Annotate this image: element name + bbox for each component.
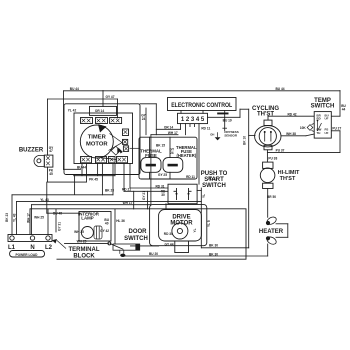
svg-text:POWER LOAD: POWER LOAD: [16, 253, 39, 257]
svg-text:TH: TH: [317, 131, 321, 135]
svg-text:RD 11: RD 11: [201, 127, 210, 131]
svg-text:PU 37: PU 37: [276, 149, 285, 153]
svg-text:WH 25: WH 25: [74, 230, 84, 234]
svg-text:BK 30: BK 30: [209, 253, 218, 257]
svg-text:30: 30: [161, 193, 165, 197]
svg-text:WH 38: WH 38: [286, 132, 296, 136]
svg-text:SENSOR: SENSOR: [224, 133, 238, 137]
svg-text:24: 24: [142, 117, 146, 121]
svg-text:HL 36: HL 36: [116, 219, 125, 223]
svg-text:MOTOR: MOTOR: [170, 221, 193, 227]
svg-text:L2: L2: [45, 245, 53, 251]
svg-text:SWITCH: SWITCH: [311, 104, 335, 110]
svg-text:BK 10: BK 10: [243, 136, 247, 145]
svg-text:ELECTRONIC CONTROL: ELECTRONIC CONTROL: [171, 102, 232, 109]
svg-text:BLOCK: BLOCK: [73, 254, 95, 260]
svg-text:GY 31: GY 31: [58, 222, 62, 231]
svg-text:TH'ST: TH'ST: [280, 176, 296, 182]
svg-text:YL 43: YL 43: [13, 213, 17, 222]
svg-text:BK 30: BK 30: [209, 244, 218, 248]
svg-text:RD: RD: [317, 117, 321, 121]
svg-text:UF: UF: [325, 117, 329, 121]
svg-text:RD 30: RD 30: [164, 232, 173, 236]
svg-text:PU 38: PU 38: [268, 157, 277, 161]
svg-text:WH 17: WH 17: [123, 201, 133, 205]
svg-text:BU 20: BU 20: [149, 252, 158, 256]
svg-text:BK 15: BK 15: [156, 143, 165, 147]
svg-text:GY 44: GY 44: [165, 243, 174, 247]
svg-text:BU 44: BU 44: [275, 87, 284, 91]
svg-text:LAMP: LAMP: [81, 215, 94, 220]
svg-text:FUSE: FUSE: [145, 153, 157, 158]
svg-text:BU 19: BU 19: [223, 119, 232, 123]
svg-text:RD 31: RD 31: [155, 184, 164, 188]
svg-text:BU 44: BU 44: [70, 87, 79, 91]
svg-text:BK 23: BK 23: [105, 189, 114, 193]
svg-text:10K: 10K: [300, 126, 307, 130]
svg-text:PU 27: PU 27: [332, 127, 341, 131]
svg-text:1 2 3 4 5: 1 2 3 4 5: [181, 117, 205, 123]
svg-text:YL 43: YL 43: [40, 198, 49, 202]
svg-text:47: 47: [49, 149, 53, 153]
svg-text:WH 17: WH 17: [27, 213, 31, 223]
svg-text:RD 11: RD 11: [208, 177, 217, 181]
svg-text:GY 21: GY 21: [142, 191, 146, 200]
svg-text:SWITCH: SWITCH: [124, 236, 148, 242]
svg-text:OR 14: OR 14: [164, 126, 173, 130]
svg-text:BR 50: BR 50: [267, 195, 276, 199]
svg-text:DRIVE: DRIVE: [172, 214, 190, 220]
svg-text:24: 24: [170, 151, 174, 155]
svg-text:BK 23: BK 23: [5, 213, 9, 222]
svg-text:N: N: [30, 245, 34, 251]
svg-text:WH 25: WH 25: [34, 216, 44, 220]
svg-text:GY 25: GY 25: [158, 173, 167, 177]
svg-text:PK 45: PK 45: [89, 178, 98, 182]
svg-text:SWITCH: SWITCH: [202, 183, 226, 189]
svg-text:YL: YL: [202, 194, 206, 198]
svg-text:YL 9: YL 9: [207, 220, 211, 227]
svg-text:TIMER: TIMER: [88, 135, 107, 141]
svg-text:RD 11: RD 11: [186, 175, 195, 179]
svg-text:YL: YL: [193, 228, 197, 232]
svg-text:BU 44: BU 44: [77, 166, 86, 170]
svg-text:WH 25: WH 25: [77, 239, 87, 243]
svg-text:OR 14: OR 14: [95, 109, 104, 113]
svg-text:BU 45: BU 45: [53, 211, 62, 215]
svg-text:DOOR: DOOR: [129, 229, 148, 235]
svg-text:L1: L1: [8, 245, 16, 251]
svg-text:UF: UF: [325, 131, 329, 135]
svg-text:MOTOR: MOTOR: [86, 142, 108, 148]
svg-text:OH: OH: [210, 132, 214, 136]
svg-text:RD 21: RD 21: [122, 187, 131, 191]
svg-text:45: 45: [49, 172, 53, 176]
svg-text:BUZZER: BUZZER: [19, 148, 44, 154]
svg-text:WH 17: WH 17: [168, 131, 178, 135]
svg-text:(HEATER): (HEATER): [176, 153, 196, 158]
svg-text:GY 47: GY 47: [106, 95, 115, 99]
svg-text:YL 42: YL 42: [68, 109, 77, 113]
svg-text:TERMINAL: TERMINAL: [69, 247, 100, 253]
svg-text:GY 42: GY 42: [100, 229, 109, 233]
svg-text:HEATER: HEATER: [259, 229, 284, 235]
svg-text:44: 44: [342, 108, 346, 112]
svg-text:RD 42: RD 42: [287, 113, 296, 117]
svg-text:40: 40: [105, 222, 109, 226]
svg-text:TH'ST: TH'ST: [257, 112, 274, 118]
